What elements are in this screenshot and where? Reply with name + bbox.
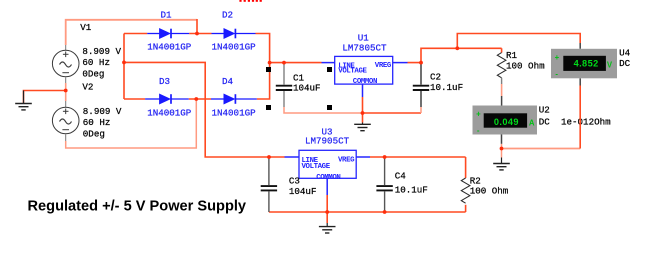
wire C1 bottom to common rail (284, 107, 363, 113)
svg-text:1e-012Ohm: 1e-012Ohm (561, 116, 611, 127)
regulator U1 LM7805CT box (322, 56, 408, 86)
svg-text:-: - (477, 126, 480, 135)
wire common rail to C2 bottom (363, 112, 422, 114)
wire left rail to D1 anode (124, 33, 147, 35)
svg-text:0Deg: 0Deg (83, 129, 105, 140)
junction C2 top (419, 61, 423, 65)
svg-text:60 Hz: 60 Hz (83, 117, 111, 128)
junction D3/D4 center tap node (194, 97, 198, 101)
wire positive rail to U1 LINE input (270, 62, 322, 64)
wire V2 minus terminal to D3/D4 node (66, 99, 197, 148)
svg-text:1N4001GP: 1N4001GP (212, 108, 257, 119)
svg-text:DC: DC (619, 58, 631, 69)
wire R1 top lead (501, 48, 503, 52)
svg-text:V1: V1 (80, 22, 92, 33)
svg-text:0Deg: 0Deg (82, 69, 104, 80)
svg-text:VOLTAGE: VOLTAGE (302, 163, 331, 171)
junction +5V to meter branch (455, 46, 459, 50)
wire D2 cathode to D4 cathode link (256, 34, 270, 100)
svg-text:COMMON: COMMON (353, 78, 377, 86)
svg-text:V: V (607, 61, 613, 70)
capacitor C1 (276, 63, 292, 107)
junction C4 top (383, 155, 387, 159)
wire left rail D1 anode to D3 anode (123, 34, 125, 100)
wire left rail to D3 anode (124, 98, 145, 100)
svg-text:1N4001GP: 1N4001GP (147, 42, 192, 53)
capacitor C3 (261, 157, 277, 212)
wire V1 minus to V2 plus (65, 83, 67, 101)
wire R1 bottom to U2 plus terminal (501, 84, 503, 96)
wire U3 VREG output rail to R2 top (370, 156, 466, 158)
svg-text:LM7905CT: LM7905CT (305, 136, 350, 147)
AC source V2 (52, 101, 79, 141)
resistor R1 (497, 53, 506, 78)
svg-text:D2: D2 (222, 10, 233, 21)
junction C4 bottom (383, 210, 387, 214)
svg-text:U4: U4 (619, 47, 631, 58)
wire R2 bottom lead (465, 205, 467, 212)
junction U3 COMMON at bottom rail (325, 210, 329, 214)
wire U1 COMMON pin lead (362, 84, 364, 97)
diode D3 (145, 94, 189, 104)
R1 bottom pin lead (501, 78, 503, 84)
junction D2/D4 cathode positive node (268, 61, 272, 65)
svg-text:-: - (555, 69, 558, 78)
junction common rail at U1 COMMON (361, 111, 365, 115)
regulator U3 LM7905CT box (285, 150, 371, 182)
junction C3 top (267, 155, 271, 159)
wire U4 minus terminal down to ground node (crosses label) (579, 86, 581, 149)
svg-text:C3: C3 (289, 176, 300, 187)
svg-text:C2: C2 (430, 72, 441, 83)
svg-text:10.1uF: 10.1uF (395, 185, 428, 196)
C1 selection handles (266, 67, 332, 110)
svg-text:60 Hz: 60 Hz (82, 57, 110, 68)
svg-text:DC: DC (539, 116, 551, 127)
wire V1 minus node to ground (24, 91, 66, 104)
svg-text:100 Ohm: 100 Ohm (470, 186, 509, 197)
diode D2 (212, 29, 256, 39)
svg-text:LM7805CT: LM7805CT (342, 43, 387, 54)
svg-text:1N4001GP: 1N4001GP (147, 108, 192, 119)
red dotted selection marks (clipped at top edge) (239, 0, 261, 2)
wire U3 COMMON pin lead (326, 178, 328, 195)
junction V1 minus / V2 plus / ground (64, 89, 68, 93)
svg-text:C4: C4 (395, 171, 407, 182)
voltmeter U4 (551, 43, 617, 86)
wire C2 bottom lead join (420, 107, 422, 113)
ground (U3 common) (319, 223, 336, 233)
svg-text:VREG: VREG (338, 157, 355, 165)
wire U2 minus terminal to ground node (501, 144, 503, 149)
wire D3 cathode to D4 anode (189, 98, 211, 100)
svg-text:V2: V2 (82, 82, 93, 93)
svg-text:104uF: 104uF (293, 83, 321, 94)
svg-text:D1: D1 (161, 10, 173, 21)
wire ground node across to U4 minus column (502, 148, 581, 150)
svg-text:D4: D4 (222, 76, 234, 87)
svg-text:VREG: VREG (375, 62, 392, 70)
svg-text:8.909 V: 8.909 V (82, 46, 121, 57)
wire R2 top lead (465, 157, 467, 178)
wire U3 COMMON down to bottom rail and ground (326, 195, 328, 223)
diode D4 (211, 94, 257, 104)
ground (U1 common rail) (354, 123, 371, 131)
junction C1 top (282, 61, 286, 65)
wire U1 COMMON down to ground (362, 97, 364, 123)
wire V1 plus terminal up and across to D1/D2 node (66, 20, 197, 45)
wire drop into D1/D2 node (196, 19, 198, 34)
svg-text:0.049: 0.049 (494, 117, 519, 127)
ground (meter U2 minus node) (493, 158, 510, 170)
svg-text:1N4001GP: 1N4001GP (212, 42, 257, 53)
svg-text:D3: D3 (159, 76, 170, 87)
svg-text:100 Ohm: 100 Ohm (506, 60, 545, 71)
svg-text:VOLTAGE: VOLTAGE (338, 67, 367, 75)
diode D1 (147, 29, 189, 39)
junction U2 minus ground node (500, 147, 504, 151)
svg-text:Regulated +/- 5 V Power Supply: Regulated +/- 5 V Power Supply (28, 199, 247, 215)
ammeter U2 (473, 96, 538, 144)
svg-text:104uF: 104uF (289, 186, 317, 197)
junction V1 plus / D1-D2 node (195, 32, 199, 36)
wire D1 cathode to D2 anode (189, 33, 211, 35)
svg-text:U2: U2 (539, 105, 550, 116)
junction left rail negative branch (122, 61, 126, 65)
svg-text:COMMON: COMMON (316, 174, 340, 182)
svg-text:+: + (476, 109, 481, 118)
svg-text:+: + (555, 53, 560, 62)
wire negative side bottom rail (269, 211, 466, 213)
resistor R2 (461, 178, 470, 203)
svg-text:4.852: 4.852 (574, 58, 599, 68)
capacitor C2 (413, 63, 429, 107)
wire negative branch from left rail to U3 LINE input (124, 62, 285, 157)
svg-text:8.909 V: 8.909 V (83, 106, 122, 117)
capacitor C4 (376, 157, 392, 212)
ground (sources center tap) (15, 91, 32, 110)
svg-text:C1: C1 (293, 72, 305, 83)
wire +5V node up and across to U4 plus terminal (457, 34, 580, 49)
svg-text:10.1uF: 10.1uF (430, 82, 463, 93)
AC source V1 (52, 45, 79, 83)
wire ground stem at U2 node (501, 149, 503, 158)
svg-text:A: A (529, 118, 535, 127)
wire U1 VREG output to C2 node, up and over to R1 top (408, 48, 502, 62)
